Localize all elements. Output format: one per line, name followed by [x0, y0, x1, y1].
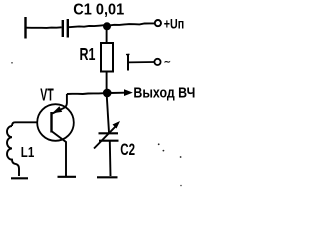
wire — [69, 23, 155, 27]
ground (collector) — [58, 176, 77, 178]
svg-text:+Uп: +Uп — [164, 16, 184, 32]
capacitor C1 — [62, 20, 64, 37]
wire junction down to C2 — [107, 93, 109, 133]
inductor L1 — [7, 126, 19, 176]
svg-text:∼: ∼ — [164, 57, 171, 67]
ground (L1) — [11, 177, 28, 179]
terminal +Un — [155, 20, 161, 26]
transistor VT emitter lead with arrow — [52, 94, 67, 114]
resistor R1 — [101, 43, 113, 72]
label C1 0,01 — [73, 1, 124, 19]
svg-text:C1 0,01: C1 0,01 — [73, 1, 124, 19]
transistor VT — [37, 104, 74, 141]
ground (C2) — [97, 176, 118, 178]
svg-text:C2: C2 — [120, 141, 135, 160]
svg-text:R1: R1 — [80, 45, 96, 65]
svg-text:VT: VT — [40, 86, 54, 105]
terminal bar top-left (antenna) — [24, 17, 26, 39]
emitter wire to junction — [67, 92, 104, 95]
label R1 — [80, 45, 96, 65]
transistor VT collector lead — [52, 132, 66, 177]
wire with arrow to output — [110, 92, 125, 94]
terminal circle — [154, 59, 160, 65]
wire C2 bottom lead — [109, 141, 112, 176]
label Vykhod VCh (HF output) — [133, 85, 195, 101]
wire — [128, 61, 154, 63]
node junction top (C1/R1/+Un) — [103, 22, 111, 30]
scan speckles — [11, 62, 13, 64]
svg-text:L1: L1 — [21, 144, 34, 161]
label L1 — [21, 144, 34, 161]
label C2 — [120, 141, 135, 160]
base wire to L1 — [12, 122, 37, 126]
wire R1 top lead — [106, 26, 108, 43]
node junction mid (R1/VT/C2/output) — [103, 89, 112, 98]
label +Un — [164, 16, 184, 32]
svg-text:Выход ВЧ: Выход ВЧ — [133, 85, 195, 101]
terminal common (bar) — [127, 55, 129, 71]
variable capacitor C2 — [99, 132, 119, 134]
transistor VT base bar — [50, 112, 52, 133]
wire — [27, 26, 62, 29]
label VT — [40, 86, 54, 105]
wire R1 bottom lead — [106, 72, 108, 94]
